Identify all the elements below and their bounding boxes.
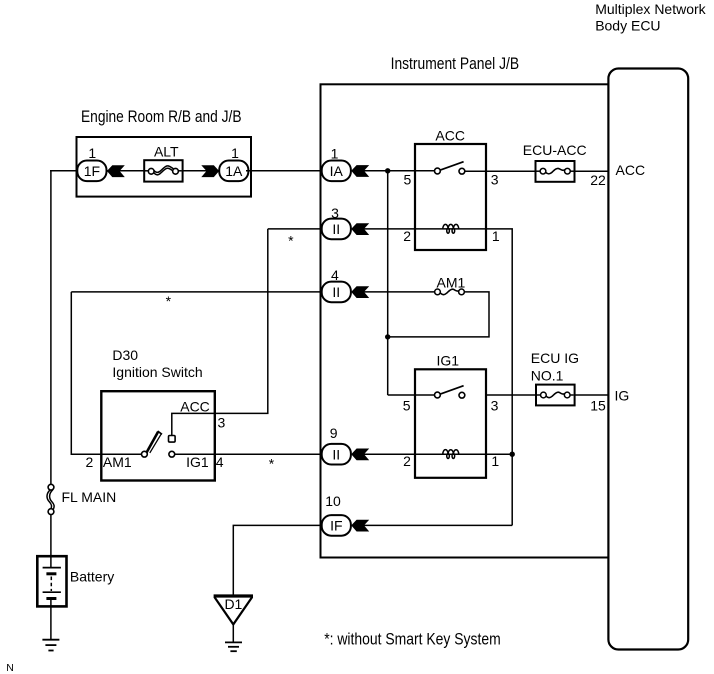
ground point D1 (triangle) xyxy=(214,596,253,624)
wire: ECU IG fuse to Body ECU pin 15 xyxy=(570,394,609,396)
svg-text:IA: IA xyxy=(330,163,344,179)
svg-text:Battery: Battery xyxy=(70,568,114,584)
svg-text:ALT: ALT xyxy=(154,144,179,160)
connector II (pin 9) xyxy=(322,444,351,465)
svg-text:5: 5 xyxy=(404,172,412,188)
svg-text:1: 1 xyxy=(491,453,499,469)
battery xyxy=(37,556,66,606)
wire: ACC relay pin 1 to vertical bus xyxy=(486,229,512,526)
svg-text:3: 3 xyxy=(331,205,339,221)
junction block: Engine Room R/B box xyxy=(77,137,252,197)
svg-text:II: II xyxy=(332,284,340,300)
arrow into 1F xyxy=(107,165,125,177)
switch terminal IG1 (D30) xyxy=(169,451,175,457)
wire: ALT fuse to 1A xyxy=(178,170,222,172)
svg-text:4: 4 xyxy=(216,454,224,470)
wire: ECU-ACC fuse to Body ECU pin 22 xyxy=(570,170,609,172)
svg-text:IG1: IG1 xyxy=(437,353,460,369)
fuse ECU IG NO.1 xyxy=(536,385,575,406)
svg-text:D30: D30 xyxy=(112,347,138,363)
arrow into IA xyxy=(351,165,369,177)
svg-text:9: 9 xyxy=(330,425,338,441)
svg-text:2: 2 xyxy=(403,453,411,469)
svg-text:15: 15 xyxy=(590,397,606,413)
svg-text:2: 2 xyxy=(86,454,94,470)
arrow into IF xyxy=(351,520,369,532)
svg-text:*: * xyxy=(288,233,294,249)
wire: AM1 fuse return to junction xyxy=(388,292,489,337)
fuse ECU-ACC xyxy=(536,161,575,182)
wire: left power rail down to FL MAIN xyxy=(50,171,52,485)
fusible link FL MAIN xyxy=(47,484,54,514)
connector IA (pin 1) xyxy=(322,161,351,182)
wire: D30 ACC terminal to II-3 branch xyxy=(172,229,268,437)
svg-text:3: 3 xyxy=(491,172,499,188)
arrow into II-3 xyxy=(351,223,369,235)
wire: D1 to ground xyxy=(232,624,234,642)
junction dot at AM1 return xyxy=(385,334,390,339)
wire: vertical junction bus x388 xyxy=(387,171,389,395)
svg-text:II: II xyxy=(332,221,340,237)
svg-text:3: 3 xyxy=(491,398,499,414)
wire: 1A to IA xyxy=(246,170,322,172)
svg-text:1: 1 xyxy=(331,145,339,161)
svg-text:Multiplex Network: Multiplex Network xyxy=(595,1,706,17)
connector II (pin 3) xyxy=(322,219,351,240)
wire: IG1 relay coil row xyxy=(415,453,512,455)
svg-text:10: 10 xyxy=(325,493,341,509)
svg-text:*: * xyxy=(166,293,172,309)
svg-text:*: without Smart Key System: *: without Smart Key System xyxy=(324,630,501,649)
svg-text:3: 3 xyxy=(218,414,226,430)
svg-text:2: 2 xyxy=(403,228,411,244)
ground (battery negative) xyxy=(42,640,59,651)
svg-text:Instrument Panel J/B: Instrument Panel J/B xyxy=(391,54,519,73)
wire: 1F stub to left power rail xyxy=(50,170,79,172)
wire: battery to ground xyxy=(50,606,52,640)
switch terminal ACC (D30) xyxy=(169,436,176,443)
switch lever (D30) xyxy=(147,432,158,453)
ECU: Multiplex Network Body ECU (rounded box) xyxy=(608,69,688,650)
wire: ACC relay coil row xyxy=(415,228,486,230)
svg-text:5: 5 xyxy=(403,398,411,414)
wire: II-4 to AM1 fuse xyxy=(364,291,435,293)
junction dot at IA row xyxy=(385,168,390,173)
wire: II-4 stub outside box xyxy=(71,291,323,293)
wire: 1F to ALT fuse xyxy=(104,170,148,172)
svg-text:ACC: ACC xyxy=(616,162,646,178)
ignition switch D30 box xyxy=(101,391,215,480)
relay ACC xyxy=(415,144,486,250)
svg-text:1F: 1F xyxy=(84,163,100,179)
svg-text:1: 1 xyxy=(492,228,500,244)
svg-text:1: 1 xyxy=(231,145,239,161)
junction block: Instrument Panel J/B box xyxy=(321,84,610,557)
svg-text:1: 1 xyxy=(88,145,96,161)
svg-text:NO.1: NO.1 xyxy=(531,368,564,384)
svg-text:ACC: ACC xyxy=(180,398,210,414)
connector 1A xyxy=(219,161,248,182)
wire: II-9 to IG1 relay pin 2 xyxy=(364,453,415,455)
wire: ACC relay pin 3 to ECU-ACC fuse xyxy=(465,170,541,172)
switch pivot terminal AM1 (D30) xyxy=(142,451,148,457)
arrow into II-9 xyxy=(351,449,369,461)
ground (D1) xyxy=(225,642,242,651)
svg-text:Ignition Switch: Ignition Switch xyxy=(112,364,202,380)
wire: IF connector to ground point D1 xyxy=(233,525,323,595)
svg-text:II: II xyxy=(332,447,340,463)
svg-text:D1: D1 xyxy=(224,596,242,612)
svg-text:AM1: AM1 xyxy=(103,454,132,470)
svg-text:IF: IF xyxy=(330,518,342,534)
connector 1F xyxy=(77,161,106,182)
wire: into IG1 relay pin 5 xyxy=(388,394,435,396)
junction dot at IG1 coil row xyxy=(510,452,515,457)
svg-text:22: 22 xyxy=(590,172,606,188)
wire: vertical bus to IF connector xyxy=(364,524,512,526)
arrow into 1A xyxy=(201,165,219,177)
connector II (pin 4) xyxy=(322,282,351,303)
connector IF (pin 10) xyxy=(322,515,351,536)
wire: II-3 to ACC relay pin 2 xyxy=(364,228,415,230)
svg-text:FL MAIN: FL MAIN xyxy=(62,489,117,505)
svg-text:Body ECU: Body ECU xyxy=(595,17,660,33)
svg-text:ACC: ACC xyxy=(435,128,465,144)
svg-text:ECU-ACC: ECU-ACC xyxy=(523,142,587,158)
svg-text:ECU IG: ECU IG xyxy=(531,350,579,366)
wire: II-3 stub outside box xyxy=(268,228,323,230)
wire: IA to ACC relay pin 5 xyxy=(364,170,435,172)
svg-text:AM1: AM1 xyxy=(437,275,466,291)
svg-text:IG1: IG1 xyxy=(186,454,209,470)
wire: FL MAIN to battery xyxy=(50,514,52,567)
wire: D30 IG1 terminal to II-9 xyxy=(172,453,323,455)
arrow into II-4 xyxy=(351,286,369,298)
fuse AM1 xyxy=(435,289,465,295)
wire: IG1 relay pin 3 to ECU IG fuse xyxy=(486,394,540,396)
fuse ALT (fusible link) xyxy=(144,160,182,181)
relay IG1 xyxy=(415,369,486,478)
wire: left branch to D30 AM1 xyxy=(71,292,142,454)
svg-text:N: N xyxy=(6,662,14,674)
svg-text:Engine Room R/B and J/B: Engine Room R/B and J/B xyxy=(81,107,242,126)
svg-text:4: 4 xyxy=(331,267,339,283)
svg-text:1A: 1A xyxy=(225,163,243,179)
svg-text:IG: IG xyxy=(615,387,630,403)
svg-text:*: * xyxy=(269,455,275,471)
